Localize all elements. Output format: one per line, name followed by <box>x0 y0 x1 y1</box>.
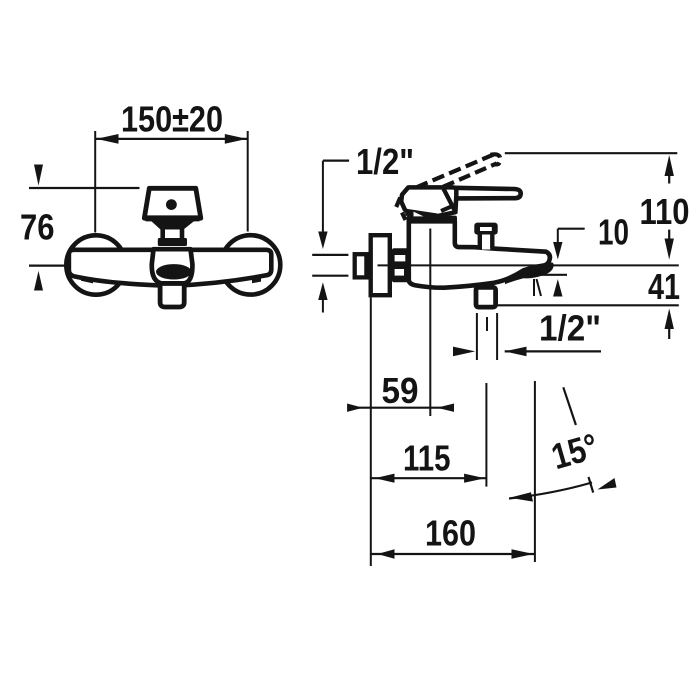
svg-text:1/2": 1/2" <box>356 141 414 182</box>
dimension 59: left extension line (from flange) <box>370 298 372 567</box>
front view: lever handle (trapezoid) <box>144 188 201 218</box>
dimension 160: dimension line <box>371 553 535 555</box>
svg-text:160: 160 <box>425 513 476 554</box>
svg-text:76: 76 <box>20 207 55 248</box>
dimension 1/2 inch top: up arrowhead <box>318 282 327 300</box>
dimension 1/2 inch bottom: left extension line <box>476 313 478 360</box>
front view: neck left side <box>160 229 165 239</box>
dimension 160: left arrowhead <box>378 549 395 559</box>
side view: knob neck left <box>478 234 482 248</box>
front view: handle dot <box>166 199 177 210</box>
side view: knob neck right <box>490 234 494 248</box>
dimension 150±20: right arrowhead <box>225 134 247 144</box>
side view: lever handle bar <box>454 188 521 199</box>
dimension 10: up arrowhead <box>553 279 562 296</box>
dimension 15deg: vertical tick at spout mouth <box>533 279 535 296</box>
dimension 15deg: arc <box>509 483 592 499</box>
side view: raised head dash b <box>402 213 406 221</box>
dimension 59: left arrowhead <box>347 404 363 412</box>
svg-text:1/2": 1/2" <box>539 308 601 349</box>
side view: head notch <box>414 212 424 217</box>
dimension 150±20: dimension line <box>95 138 248 140</box>
front view: body bottom step right <box>252 278 261 283</box>
front view: cartridge cover (black trapezoid under handle) <box>150 220 196 230</box>
dimension 10: short lower line <box>535 274 568 276</box>
front view: diverter dark ellipse <box>156 264 192 279</box>
side view: nut lower slot <box>395 269 404 276</box>
dimension 59: right arrowhead <box>437 404 454 412</box>
dimension 15deg: slanted tick through arc <box>589 477 594 493</box>
front view: diverter cup <box>152 249 193 283</box>
svg-text:110: 110 <box>640 191 690 232</box>
dimension 15deg: left arrowhead on arc <box>510 492 534 501</box>
dimension 1/2 inch bottom: center tick <box>486 317 488 331</box>
front view: mixer body bar <box>69 250 271 286</box>
svg-text:10: 10 <box>598 212 629 253</box>
side view: horizontal centerline of supply <box>378 264 679 266</box>
dimension 59: dimension line <box>352 407 450 409</box>
side view: handle head crease <box>443 189 455 212</box>
front view: tub spout outlet <box>160 284 184 308</box>
side view: valve top band <box>407 216 457 223</box>
dimension 76: up arrowhead <box>34 271 43 291</box>
dimension 110: top extension line <box>505 152 678 154</box>
side view: handle head <box>401 187 456 216</box>
side view: wall flange <box>371 235 390 295</box>
dimension 110: up arrowhead and stem <box>665 155 674 176</box>
side view: spout drip lip <box>505 262 554 284</box>
front view: left wall-mount escutcheon circle <box>66 235 125 294</box>
front view: neck right side <box>180 229 185 239</box>
dimension 1/2 inch top: down arrowhead <box>318 232 327 250</box>
side view: raised head dash a <box>396 198 400 208</box>
dimension 150±20: right extension line <box>247 131 249 232</box>
side view: connection nut <box>392 248 412 282</box>
dimension 15deg: slanted reference line <box>563 387 576 425</box>
dimension 115: right arrowhead <box>464 474 485 483</box>
front view: handle bottom heavy edge <box>146 215 200 221</box>
dimension 1/2 inch top: lower line <box>312 275 348 277</box>
dimension 10: stem <box>557 229 559 244</box>
side view: raised handle dashed tip cap <box>491 154 501 164</box>
dimension 1/2 inch top: lower stem <box>322 299 324 313</box>
side view: raised handle crease dash <box>441 206 453 211</box>
svg-text:59: 59 <box>382 370 419 411</box>
side view: body and spout outline <box>409 221 550 287</box>
side view: diverter knob cap slot <box>480 227 492 231</box>
dimension 76: down arrowhead <box>34 165 43 186</box>
dimension 1/2 inch bottom: right extension line <box>496 313 498 360</box>
dimension 76: bottom extension line <box>29 265 66 267</box>
dimension 1/2 inch bottom: left arrowhead <box>453 347 475 357</box>
dimension 1/2 inch top: stem down <box>322 161 324 243</box>
dimension 150±20: left arrowhead <box>96 134 118 144</box>
side view: knob neck white <box>482 235 490 250</box>
dimension 15deg: right arrowhead <box>598 478 617 490</box>
dimension 10: leader line <box>558 228 585 230</box>
side view: diverter knob cap <box>474 223 497 235</box>
dimension 1/2 inch bottom: dimension line with right arrowhead <box>505 350 601 352</box>
front view: body bottom step left <box>81 278 93 284</box>
dimension 110: down arrowhead and stem <box>668 230 670 241</box>
dimension 1/2 inch top: upper line <box>312 254 348 256</box>
dimension 15deg: vertical reference line <box>534 381 536 562</box>
side view: nut upper slot <box>395 255 406 261</box>
dimension 15deg: slanted tick at spout mouth <box>537 279 542 296</box>
dimension 41: up arrowhead below line <box>665 309 674 330</box>
side view: vertical construction line through valve center <box>429 229 431 417</box>
dimension 115: dimension line <box>371 477 487 479</box>
dimension 150±20: left extension line <box>94 131 96 233</box>
side view: bottom outlet square <box>476 287 496 307</box>
dimension 115: right extension line <box>485 383 487 487</box>
dimension 10: down arrowhead <box>553 242 562 259</box>
dimension 1/2 inch top: leader line <box>323 160 349 162</box>
dimension 76: top extension line <box>29 187 140 189</box>
svg-text:115: 115 <box>403 438 451 479</box>
svg-text:150±20: 150±20 <box>121 99 223 140</box>
front view: collar band <box>158 238 187 246</box>
front view: right wall-mount escutcheon circle <box>221 235 280 294</box>
side view: raised handle dashed bottom line <box>443 163 497 186</box>
dimension 160: right arrowhead <box>512 549 534 559</box>
dimension 115: left arrowhead <box>375 474 395 483</box>
dimension 41: bottom extension line <box>497 304 679 306</box>
svg-text:41: 41 <box>648 266 680 307</box>
side view: handle head bottom band <box>406 212 437 217</box>
side view: raised handle dashed top line <box>416 155 494 188</box>
side view: supply nipple <box>355 254 367 277</box>
